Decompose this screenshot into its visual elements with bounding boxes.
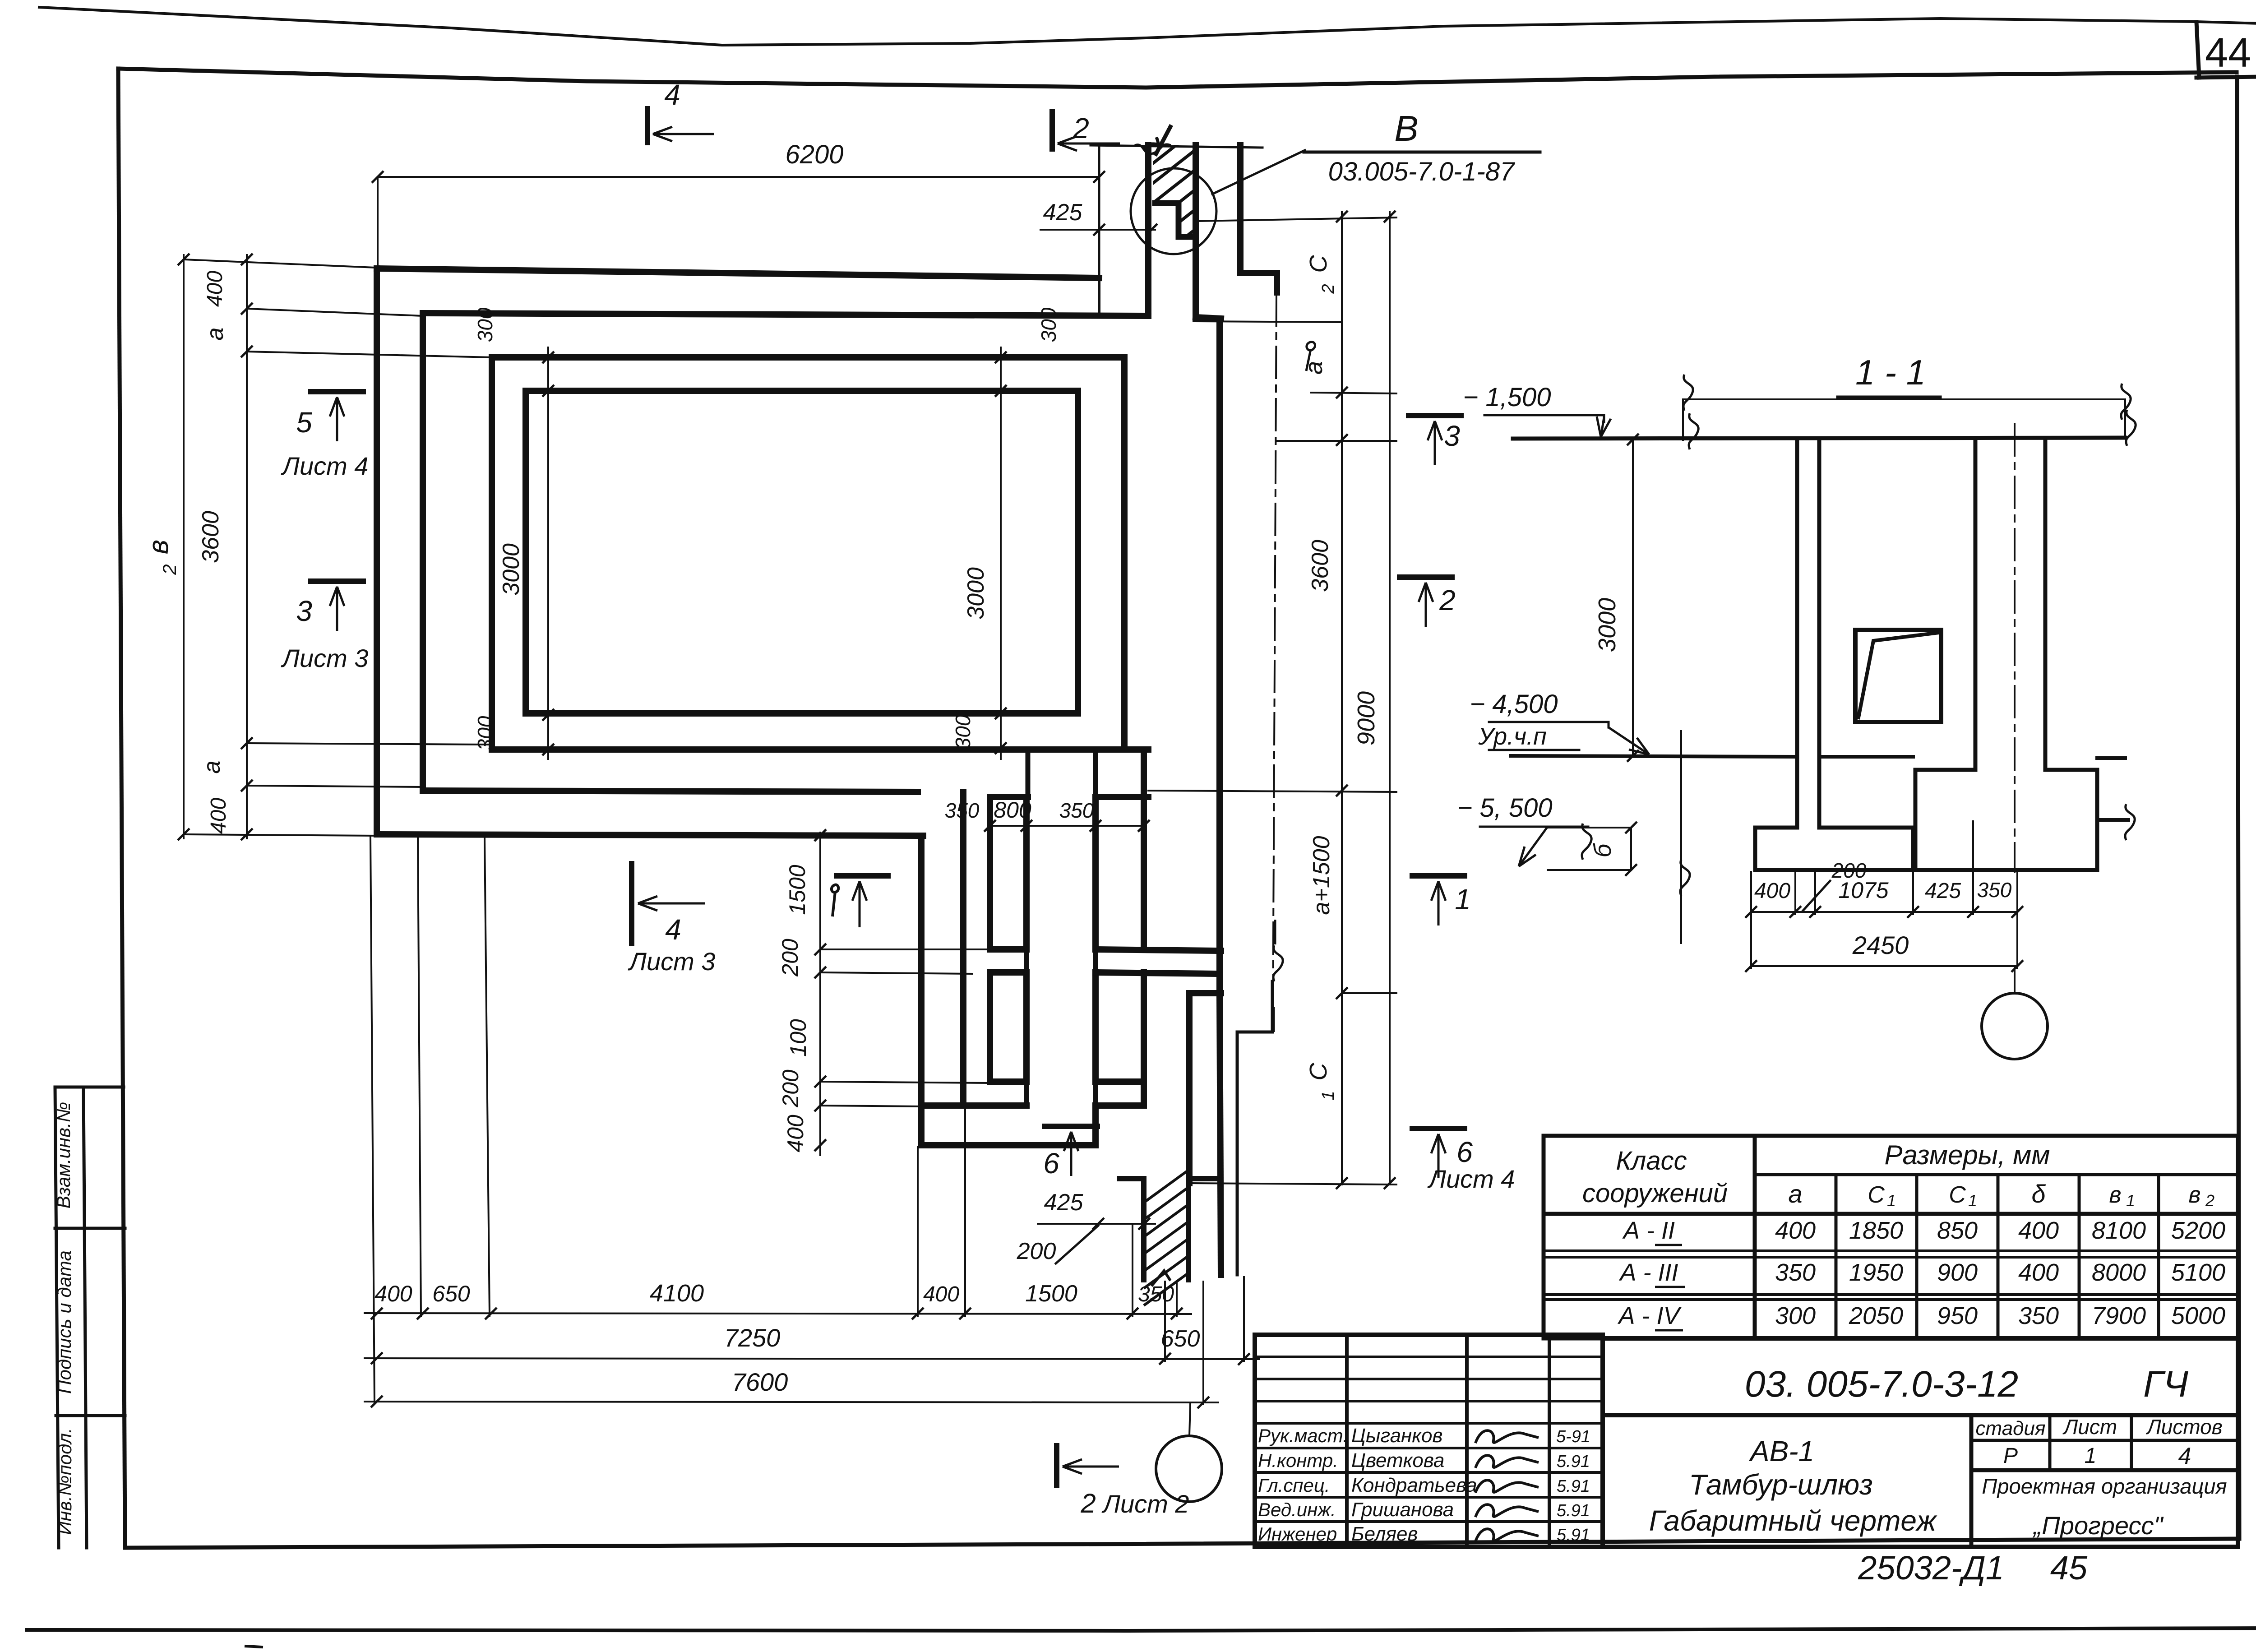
wall: upper box bottom band outer segment right <box>1124 746 1148 753</box>
svg-text:в: в <box>143 540 174 554</box>
section: right ground step <box>2097 770 2128 820</box>
svg-text:Лист 2: Лист 2 <box>1102 1490 1189 1518</box>
svg-text:3600: 3600 <box>1307 540 1333 592</box>
svg-text:С: С <box>1868 1182 1885 1208</box>
svg-text:7900: 7900 <box>2092 1302 2146 1329</box>
wall: inner face of left wall <box>420 313 426 791</box>
svg-text:3000: 3000 <box>498 543 524 596</box>
marker up 1 <box>1412 873 1465 879</box>
wall: lower inner box left face <box>918 836 925 1145</box>
extension top entrance left jamb <box>1098 148 1100 276</box>
section marker 4 sheet3 (lower) <box>629 864 634 943</box>
svg-text:200: 200 <box>1017 1238 1056 1264</box>
svg-text:Тамбур-шлюз: Тамбур-шлюз <box>1689 1468 1873 1501</box>
svg-text:− 4,500: − 4,500 <box>1470 689 1558 719</box>
svg-text:1500: 1500 <box>785 865 810 915</box>
wall: tambour chamber verticals <box>987 797 993 949</box>
svg-text:3: 3 <box>1444 420 1460 452</box>
ext line y575 <box>184 259 376 268</box>
ext v 2139 <box>964 1108 966 1316</box>
top passage outer line <box>1091 145 1262 148</box>
dimension chain middle (1500/200/100/200/400) <box>819 833 821 1155</box>
ext row y2622 <box>1189 1183 1396 1185</box>
section marker 1 (plan) <box>837 873 888 879</box>
svg-text:200: 200 <box>777 939 803 977</box>
frame right border <box>2237 77 2239 1539</box>
svg-text:350: 350 <box>1775 1259 1816 1286</box>
ext v 2582 <box>1164 1282 1166 1361</box>
wall: hatched piece bottom entrance <box>1119 1179 1144 1280</box>
wall: lower-room top inner face <box>423 791 918 792</box>
svg-text:350: 350 <box>1059 799 1094 822</box>
svg-text:Гл.спец.: Гл.спец. <box>1258 1475 1330 1496</box>
svg-text:Класс: Класс <box>1616 1146 1687 1175</box>
svg-text:7250: 7250 <box>724 1323 781 1352</box>
svg-text:1: 1 <box>1455 883 1471 916</box>
section: break line left of floor <box>1680 731 1682 943</box>
svg-text:δ: δ <box>2031 1180 2046 1208</box>
svg-text:7600: 7600 <box>732 1368 788 1396</box>
ext v 937 <box>418 837 421 1316</box>
wall: tambour separator band y2104/2155 with 800 gap <box>990 946 1026 953</box>
svg-text:1500: 1500 <box>1025 1281 1077 1307</box>
paper bottom edge <box>27 1628 2256 1631</box>
section: floor line left (Ur.ch.p level) <box>1511 756 1797 757</box>
wall: outer top face <box>377 268 1099 278</box>
section: column centerline <box>2014 424 2016 872</box>
wall: bottom-right entrance steps <box>1189 993 1221 1183</box>
svg-text:1950: 1950 <box>1849 1259 1903 1286</box>
svg-text:сооружений: сооружений <box>1582 1179 1728 1208</box>
svg-text:Н.контр.: Н.контр. <box>1258 1450 1338 1471</box>
svg-text:400: 400 <box>2018 1217 2059 1244</box>
dims 350 800 350 (tambour door) <box>990 825 1144 827</box>
svg-text:3600: 3600 <box>198 511 224 563</box>
svg-text:С: С <box>1305 255 1332 273</box>
ext row y870 <box>1311 393 1396 393</box>
svg-text:6200: 6200 <box>785 140 843 169</box>
wall: outer right inner face <box>1216 320 1223 993</box>
svg-text:− 5, 500: − 5, 500 <box>1457 793 1552 823</box>
bottom dim row2 7250/650 <box>365 1358 1259 1359</box>
wall: passage bottom right connector <box>1196 317 1221 319</box>
svg-text:АВ-1: АВ-1 <box>1748 1435 1814 1467</box>
wall: outer left face <box>374 268 380 834</box>
frame top border <box>118 69 2237 88</box>
bottom dim row3 7600 <box>365 1402 1218 1402</box>
dimension 6200 <box>378 176 1099 178</box>
svg-text:Инженер: Инженер <box>1258 1523 1337 1545</box>
dim chain interior left: 300/3000/300 <box>547 347 549 759</box>
svg-text:200: 200 <box>1831 859 1867 882</box>
svg-text:Цыганков: Цыганков <box>1351 1425 1442 1447</box>
marker up 3 <box>1409 413 1461 418</box>
section cut marker 2 top <box>1049 112 1055 149</box>
svg-text:Подпись и дата: Подпись и дата <box>54 1250 75 1394</box>
frame bottom border <box>125 1539 2239 1548</box>
svg-text:400: 400 <box>374 1281 412 1306</box>
svg-text:ГЧ: ГЧ <box>2143 1364 2189 1405</box>
svg-text:Ур.ч.п: Ур.ч.п <box>1478 723 1547 750</box>
svg-text:4: 4 <box>2178 1443 2191 1469</box>
svg-text:100: 100 <box>786 1019 811 1057</box>
svg-text:С: С <box>1305 1063 1332 1081</box>
svg-text:3000: 3000 <box>1594 598 1621 652</box>
section: floor line right <box>2097 756 2125 760</box>
vzam box top <box>55 1086 124 1089</box>
ext v 2667 <box>1202 1282 1204 1404</box>
svg-text:2050: 2050 <box>1849 1302 1903 1329</box>
svg-text:5100: 5100 <box>2171 1259 2225 1286</box>
svg-text:„Прогресс": „Прогресс" <box>2033 1511 2164 1540</box>
svg-text:5.91: 5.91 <box>1557 1501 1590 1520</box>
ext row y480 <box>1198 217 1396 221</box>
wall: bottom line of lower inner box <box>921 1142 1096 1148</box>
svg-text:5200: 5200 <box>2171 1217 2225 1244</box>
svg-text:2: 2 <box>1073 112 1089 144</box>
axis bubble (plan bottom) <box>1189 1404 1190 1436</box>
svg-text:2: 2 <box>159 564 180 575</box>
detail circle B <box>1131 168 1216 254</box>
svg-text:2: 2 <box>1319 284 1338 294</box>
svg-text:5000: 5000 <box>2171 1302 2225 1329</box>
svg-text:5.91: 5.91 <box>1557 1452 1590 1471</box>
svg-text:Лист: Лист <box>2062 1415 2117 1439</box>
wall: lower-room top outer face <box>377 834 923 836</box>
centerline entrance axis <box>1273 294 1276 1029</box>
svg-text:Вед.инж.: Вед.инж. <box>1258 1499 1336 1520</box>
column axis bubble (section) <box>2014 966 2016 993</box>
svg-text:Лист 4: Лист 4 <box>281 452 369 480</box>
svg-text:1 - 1: 1 - 1 <box>1855 352 1926 392</box>
svg-text:в: в <box>2188 1182 2201 1208</box>
svg-text:Р: Р <box>2003 1444 2018 1468</box>
ext v 835 <box>370 837 374 1404</box>
svg-text:5.91: 5.91 <box>1557 1526 1590 1545</box>
section marker 2 sheet2 (bottom) <box>1054 1446 1059 1485</box>
section marker 3 sheet3 <box>311 578 363 584</box>
svg-text:300: 300 <box>1037 307 1060 342</box>
svg-text:Рук.маст.: Рук.маст. <box>1258 1425 1348 1446</box>
section: window opening with flap <box>1855 630 1941 722</box>
svg-text:350: 350 <box>2018 1302 2059 1329</box>
svg-text:Взам.инв.№: Взам.инв.№ <box>53 1102 74 1208</box>
dim line v2 <box>246 255 248 838</box>
svg-text:425: 425 <box>1043 199 1083 226</box>
svg-text:03.005-7.0-1-87: 03.005-7.0-1-87 <box>1328 157 1516 186</box>
svg-text:2450: 2450 <box>1852 931 1909 959</box>
svg-text:8000: 8000 <box>2092 1259 2146 1286</box>
svg-text:Габаритный чертеж: Габаритный чертеж <box>1649 1504 1938 1537</box>
section: left wall <box>1795 440 1799 828</box>
wall: top passage left side <box>1145 145 1151 316</box>
wall: bottom entrance left jamb <box>1092 1106 1099 1145</box>
svg-text:Лист 3: Лист 3 <box>281 644 369 672</box>
wall: top passage right side steps <box>1240 145 1277 292</box>
svg-text:1: 1 <box>1319 1091 1338 1100</box>
svg-text:900: 900 <box>1937 1259 1978 1286</box>
svg-text:4: 4 <box>665 913 681 946</box>
section: top dim line <box>1683 398 2125 400</box>
svg-text:4100: 4100 <box>650 1280 704 1307</box>
frame left border <box>118 69 125 1548</box>
section marker 6 (plan) <box>1045 1124 1097 1129</box>
svg-text:Беляев: Беляев <box>1351 1523 1418 1545</box>
dimension 9000 <box>1389 212 1391 1185</box>
svg-text:a: a <box>202 328 228 341</box>
svg-text:1850: 1850 <box>1849 1217 1903 1244</box>
svg-text:1: 1 <box>1968 1191 1977 1210</box>
svg-text:С: С <box>1949 1182 1966 1208</box>
dimension b (delta) <box>1630 828 1632 870</box>
ext line y1741 <box>247 786 423 787</box>
ext line y1647 <box>247 743 492 745</box>
svg-text:850: 850 <box>1937 1217 1978 1244</box>
dimension 425 top <box>1040 229 1155 231</box>
wall: inner box inner rectangle (upper room) <box>526 391 1078 713</box>
break on centerline <box>1273 945 1283 981</box>
svg-text:25032-Д1: 25032-Д1 <box>1858 1549 2004 1587</box>
svg-text:45: 45 <box>2050 1549 2088 1587</box>
svg-text:2: 2 <box>1080 1488 1096 1518</box>
svg-text:350: 350 <box>1138 1282 1174 1306</box>
ext row y1752 <box>1148 791 1396 792</box>
svg-text:2: 2 <box>1439 584 1456 616</box>
svg-text:стадия: стадия <box>1976 1417 2046 1439</box>
svg-text:5-91: 5-91 <box>1556 1427 1590 1446</box>
svg-text:Проектная организация: Проектная организация <box>1982 1474 2227 1498</box>
section marker 5 sheet4 <box>311 389 363 394</box>
svg-text:400: 400 <box>2018 1259 2059 1286</box>
svg-text:Лист 3: Лист 3 <box>628 947 716 976</box>
svg-text:400: 400 <box>207 798 231 834</box>
break squiggle on top passage line <box>1144 137 1158 149</box>
leader line to B <box>1212 150 1305 194</box>
dimension 3000 section <box>1632 440 1634 756</box>
svg-text:в: в <box>2109 1182 2121 1208</box>
svg-text:8100: 8100 <box>2092 1217 2146 1244</box>
svg-text:350: 350 <box>1977 878 2012 902</box>
svg-text:400: 400 <box>783 1115 808 1152</box>
ext row y977 <box>1277 440 1396 442</box>
svg-text:Кондратьева: Кондратьева <box>1351 1474 1477 1496</box>
svg-text:425: 425 <box>1925 879 1961 903</box>
wall: chamber top band with 800 door <box>990 794 1028 800</box>
door jamb left (chamber top) <box>1026 750 1031 797</box>
dimension 2450 <box>1751 965 2017 967</box>
svg-text:Размеры, мм: Размеры, мм <box>1885 1140 2050 1170</box>
class table <box>1544 1136 2238 1338</box>
section: column footing <box>1915 770 2097 870</box>
dimension chain right (C2,a,3600,a+1500,C1) <box>1341 212 1343 1185</box>
svg-text:400: 400 <box>1775 1217 1816 1244</box>
svg-text:200: 200 <box>778 1069 803 1108</box>
jamb at top entrance left <box>1098 278 1100 316</box>
section cut marker 4 top <box>645 109 650 143</box>
ext row y2201 <box>1342 992 1396 994</box>
svg-text:400: 400 <box>1754 879 1790 903</box>
svg-text:950: 950 <box>1937 1302 1978 1329</box>
svg-text:300: 300 <box>1775 1302 1816 1329</box>
svg-text:2: 2 <box>2205 1191 2214 1210</box>
svg-text:350: 350 <box>945 799 980 822</box>
svg-text:a: a <box>1788 1180 1802 1208</box>
section: top ceiling line <box>1513 438 2125 439</box>
ext v 2034 <box>917 1147 919 1316</box>
svg-text:a: a <box>199 761 225 774</box>
svg-text:44: 44 <box>2205 30 2251 76</box>
dimension 425 bottom <box>1038 1223 1155 1225</box>
svg-text:a: a <box>1300 361 1327 375</box>
ext v 1088 <box>485 837 490 1316</box>
svg-text:6: 6 <box>1043 1147 1059 1180</box>
svg-text:1: 1 <box>2085 1444 2097 1468</box>
underline 1-1 <box>1838 396 1940 399</box>
door jamb right (chamber top) <box>1093 750 1098 797</box>
dim line v1 (B2) <box>183 255 185 838</box>
wall: chamber bottom band y2397/2450 with gap <box>990 1078 1026 1085</box>
marker up 2 <box>1400 574 1452 580</box>
svg-text:650: 650 <box>1161 1326 1200 1352</box>
bottom dim row1 400/650/4100/400/1500/350 <box>365 1313 1191 1314</box>
svg-text:В: В <box>1394 108 1418 148</box>
title block <box>1603 1338 2238 1547</box>
paper bottom small dash <box>246 1646 262 1647</box>
wall: lower inner box right face <box>960 792 966 1106</box>
section bottom dims 400/200/1075/425/350 <box>1751 911 2017 913</box>
svg-text:Гришанова: Гришанова <box>1351 1499 1454 1521</box>
cut termination mark <box>1151 1271 1170 1286</box>
svg-text:− 1,500: − 1,500 <box>1463 383 1551 412</box>
svg-text:5.91: 5.91 <box>1557 1477 1590 1496</box>
svg-text:4: 4 <box>664 79 680 111</box>
svg-text:Цветкова: Цветкова <box>1351 1449 1444 1472</box>
ext v 2757 <box>1243 1277 1245 1361</box>
svg-text:400: 400 <box>203 271 227 307</box>
page number box 44 <box>2196 22 2199 78</box>
svg-text:300: 300 <box>473 307 497 342</box>
ext line y1849 <box>184 834 377 836</box>
svg-text:425: 425 <box>1044 1189 1084 1216</box>
svg-text:А - II: А - II <box>1622 1217 1675 1244</box>
ext line y684 <box>247 309 423 316</box>
section: column <box>1974 440 1978 770</box>
svg-text:А - IV: А - IV <box>1617 1302 1682 1329</box>
svg-text:А - III: А - III <box>1618 1259 1678 1286</box>
marker up 6 <box>1412 1126 1465 1131</box>
signature table <box>1255 1335 1603 1547</box>
svg-text:03. 005-7.0-3-12: 03. 005-7.0-3-12 <box>1745 1364 2018 1405</box>
svg-text:Лист 4: Лист 4 <box>1428 1165 1515 1193</box>
attr boxes outer left edge <box>55 1087 59 1548</box>
svg-text:3000: 3000 <box>963 567 989 620</box>
ext line y779 <box>247 352 492 357</box>
ext v 2510 <box>1132 1226 1133 1316</box>
svg-text:a+1500: a+1500 <box>1308 836 1335 915</box>
ext v 2608 <box>1176 1282 1178 1316</box>
svg-text:9000: 9000 <box>1353 691 1380 745</box>
dim chain interior right: 300/3000/300 <box>1000 347 1002 759</box>
wall: inner face of top wall <box>423 313 1148 316</box>
svg-text:б: б <box>1589 843 1616 857</box>
svg-text:1: 1 <box>1887 1191 1896 1210</box>
svg-text:300: 300 <box>951 714 975 749</box>
section: left wall footing <box>1755 828 1913 870</box>
svg-text:Инв.№подл.: Инв.№подл. <box>54 1428 75 1535</box>
svg-text:1: 1 <box>2126 1191 2135 1210</box>
svg-text:5: 5 <box>296 406 312 439</box>
divider vzam/podpis <box>55 1227 125 1230</box>
svg-text:6: 6 <box>1456 1136 1473 1168</box>
attr boxes divider <box>83 1087 87 1548</box>
underline B <box>1304 151 1540 154</box>
svg-text:3: 3 <box>296 595 312 627</box>
divider podpis/inv <box>56 1414 125 1417</box>
ext row y712 <box>1196 321 1342 322</box>
paper top edge <box>39 7 2196 45</box>
svg-text:400: 400 <box>923 1282 959 1306</box>
wall: inner box outer rectangle (upper room) <box>492 357 1124 750</box>
wall: hatched door rebate piece (top entrance) <box>1193 145 1199 319</box>
svg-text:Листов: Листов <box>2145 1415 2223 1439</box>
svg-text:650: 650 <box>432 1281 470 1306</box>
section: floor line mid <box>1819 755 1913 759</box>
